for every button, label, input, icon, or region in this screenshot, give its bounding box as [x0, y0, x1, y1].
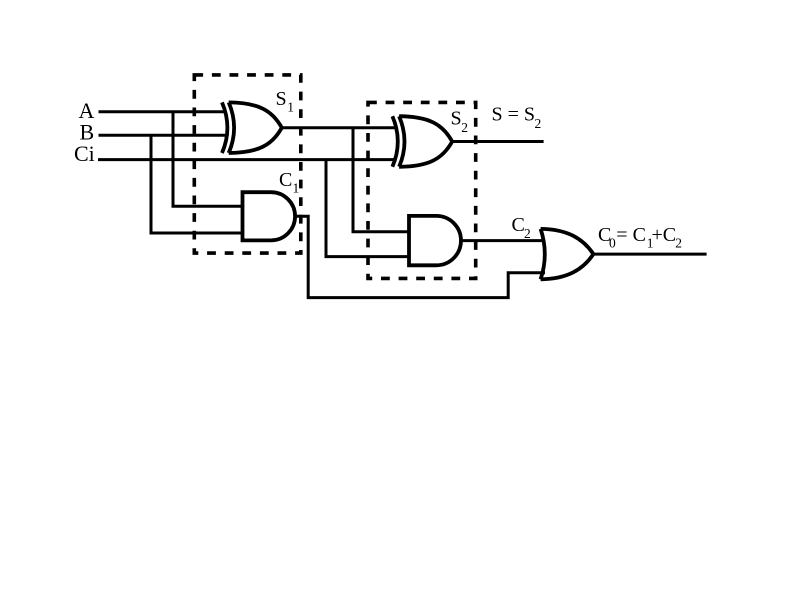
wire net S1 from XOR1 output to XOR2 upper input [282, 126, 396, 129]
label C2 [512, 214, 531, 241]
svg-text:2: 2 [524, 226, 531, 241]
svg-text:S = S: S = S [492, 104, 536, 126]
label S1 [276, 88, 295, 115]
label C0 = C1 + C2 [598, 224, 682, 250]
svg-text:2: 2 [675, 236, 682, 251]
wire branch Ci down to AND2 lower input [326, 160, 411, 257]
svg-text:2: 2 [535, 116, 542, 131]
and gate U2 (carry C1) [243, 192, 296, 240]
wire input Ci horizontal to XOR2 [98, 158, 396, 161]
xor gate U3 (sum S2) [392, 116, 452, 167]
wire output C0 from OR gate [593, 253, 706, 256]
svg-text:S: S [276, 88, 287, 110]
wire input B horizontal [99, 134, 227, 137]
svg-text:0: 0 [609, 236, 616, 251]
wire branch S1 down to AND2 upper input [353, 128, 411, 232]
wire branch B down to AND1 lower input [151, 135, 244, 233]
wire output S from XOR2 [452, 140, 543, 143]
wire branch A down to AND1 upper input [173, 112, 244, 207]
label C1 [279, 169, 299, 196]
label S = S2 [492, 104, 542, 131]
svg-text:C: C [512, 214, 525, 236]
and gate U4 (carry C2) [409, 216, 461, 265]
wire input A horizontal [99, 110, 227, 113]
svg-text:+C: +C [652, 224, 677, 246]
svg-text:1: 1 [287, 100, 294, 115]
half-adder 1 boundary box (dashed) [194, 75, 300, 253]
svg-text:2: 2 [461, 120, 468, 135]
svg-text:S: S [451, 108, 462, 130]
wire C2 from AND2 output to OR upper input [461, 239, 545, 242]
svg-text:1: 1 [293, 181, 300, 196]
svg-text:Ci: Ci [74, 141, 95, 166]
svg-text:C: C [279, 169, 292, 191]
or gate U5 (carry out C0) [541, 229, 594, 279]
xor gate U1 (sum S1) [222, 102, 282, 153]
wire C1 routing from AND1 output to OR lower input [295, 216, 545, 297]
label S2 [451, 108, 469, 136]
svg-text:= C: = C [616, 224, 646, 246]
half-adder 2 boundary box (dashed) [368, 102, 476, 278]
